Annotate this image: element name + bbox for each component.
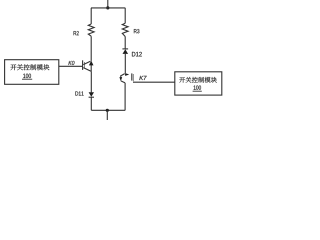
transistor K0 base wire xyxy=(59,65,83,67)
wire top rail xyxy=(91,7,125,9)
label 100 left xyxy=(23,74,31,78)
wire bottom rail xyxy=(91,109,125,111)
transistor K0 xyxy=(83,60,94,71)
resistor R3 xyxy=(122,23,128,36)
node bottom junction xyxy=(106,109,109,112)
wire bottom stub xyxy=(106,110,108,120)
label left box text 开关控制模块 xyxy=(10,64,49,70)
box switch control module left xyxy=(5,60,59,85)
label K0 xyxy=(68,61,74,65)
wire K0 to D11 xyxy=(90,71,92,92)
wire K7 to bottom rail xyxy=(124,83,126,110)
underline right 100 xyxy=(193,90,202,92)
wire R2 to K0 xyxy=(90,36,92,61)
transistor K7 gate wire xyxy=(133,81,175,83)
diode D12 xyxy=(122,49,128,54)
node top junction xyxy=(106,6,109,9)
underline left 100 xyxy=(22,78,32,80)
label 100 right xyxy=(194,85,201,89)
resistor R2 xyxy=(88,24,94,36)
box switch control module right xyxy=(175,72,222,95)
label R2 xyxy=(74,31,79,35)
label D11 xyxy=(75,91,83,95)
label D12 xyxy=(132,52,142,57)
label R3 xyxy=(134,29,140,33)
wire top supply stub xyxy=(107,0,109,8)
wire R3 to D12 xyxy=(124,37,126,49)
wire D11 to bottom rail xyxy=(90,97,92,110)
wire D12 to K7 xyxy=(124,54,126,73)
transistor K7 xyxy=(119,73,133,83)
label right box text 开关控制模块 xyxy=(179,77,217,83)
wire left branch upper xyxy=(90,8,92,24)
label K7 xyxy=(139,76,146,80)
wire right branch upper xyxy=(124,8,126,23)
diode D11 xyxy=(89,92,94,97)
